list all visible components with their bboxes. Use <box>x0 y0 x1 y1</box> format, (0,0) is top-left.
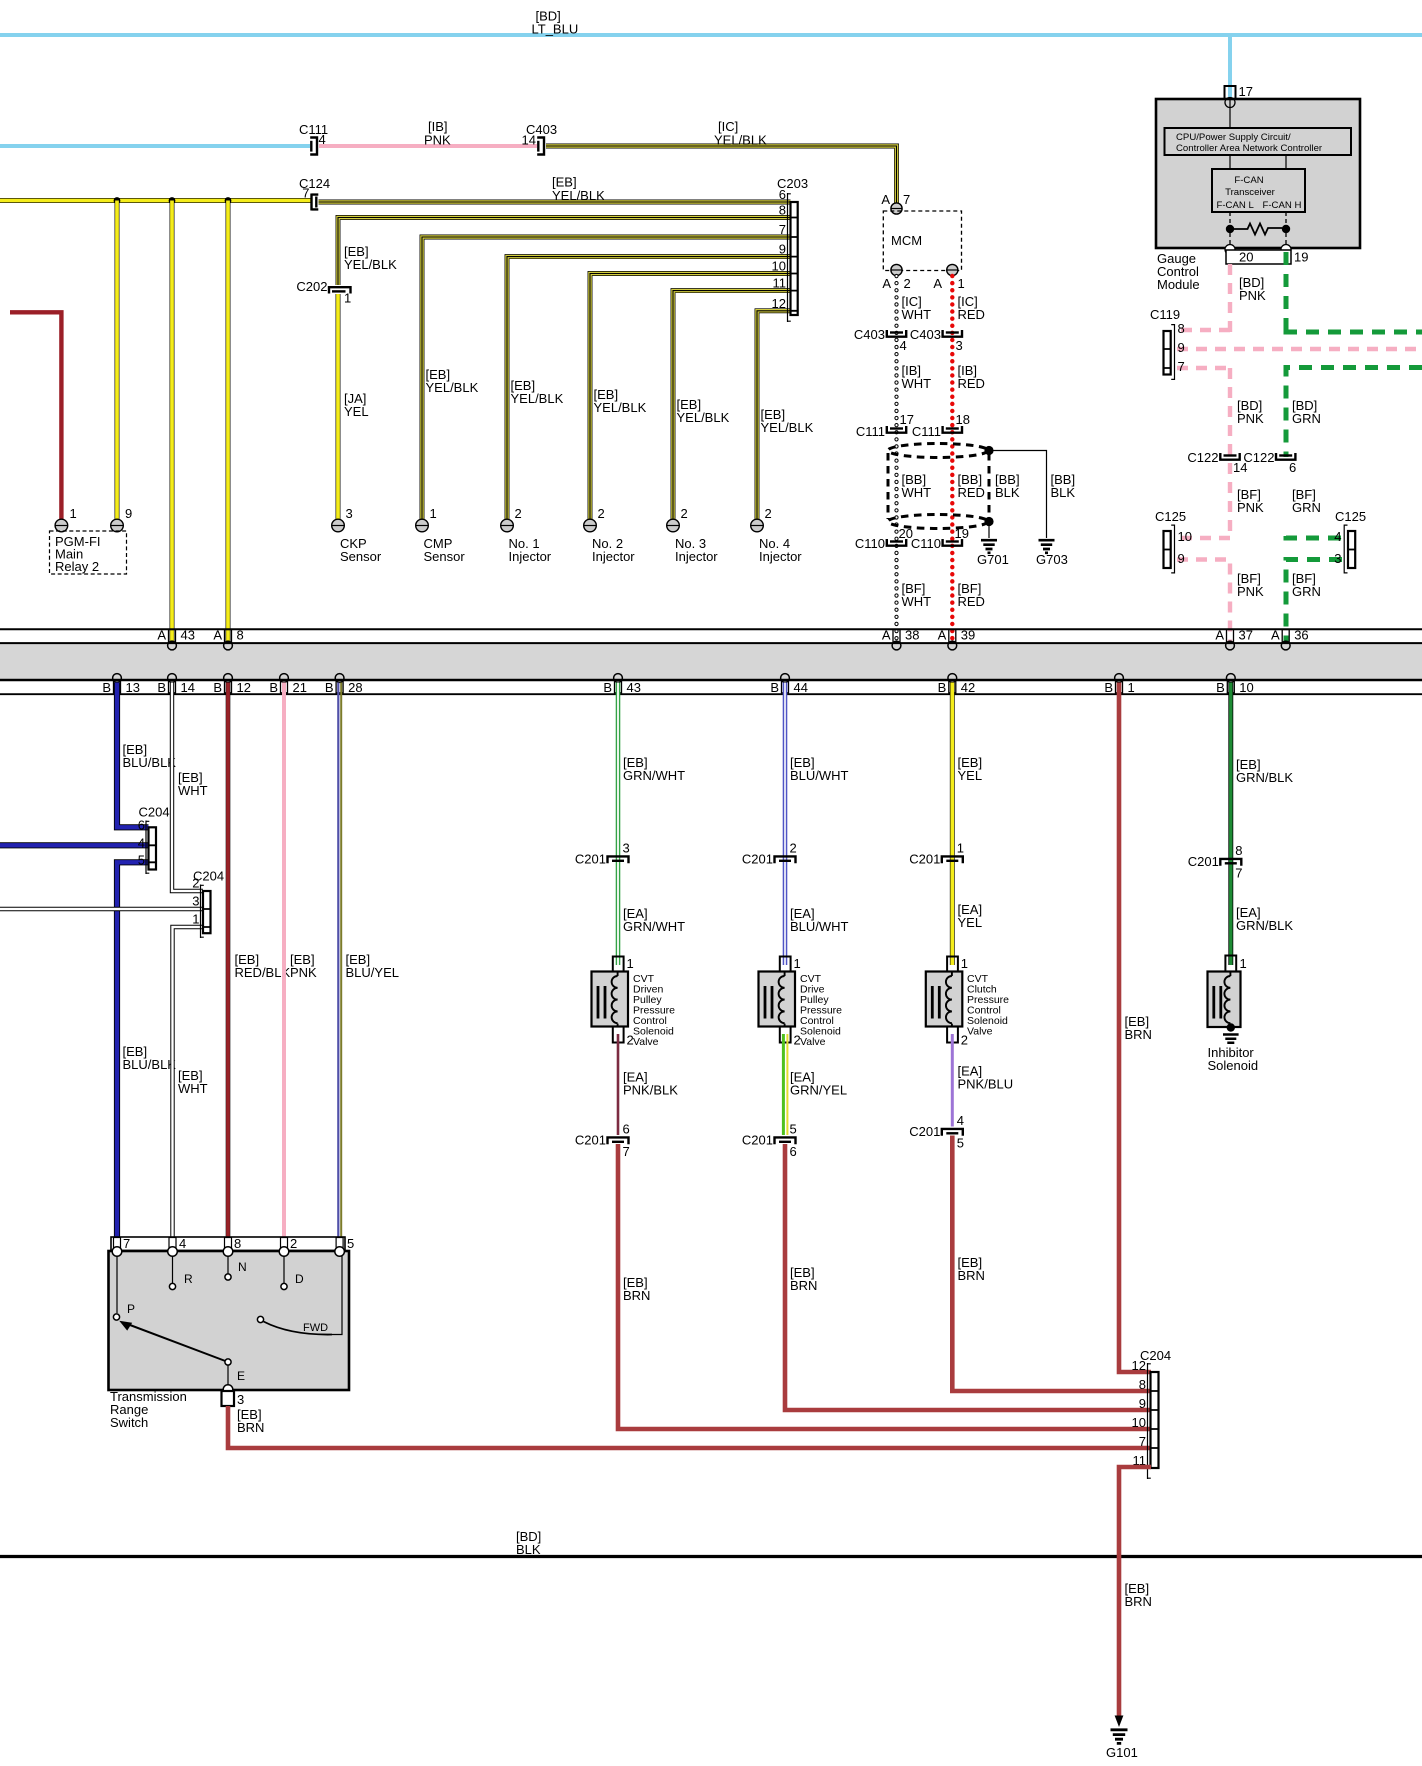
label [EB] BRN at switch pin 3 <box>237 1407 264 1435</box>
svg-text:BLK: BLK <box>995 485 1020 500</box>
wire [BF] GRN into C125 pin 4 <box>1286 536 1342 538</box>
svg-text:Valve: Valve <box>800 1036 826 1048</box>
label CVT Drive Pulley Pressure Control Solenoid Valve <box>800 973 842 1048</box>
svg-text:B: B <box>603 680 612 695</box>
wire [EA] PNK/BLU <box>951 1034 954 1127</box>
svg-text:BRN: BRN <box>1125 1027 1152 1042</box>
CVT drive pulley solenoid pin 1 <box>780 956 801 972</box>
connector C201 pins 4 5 <box>909 1113 964 1151</box>
label [BB] RED <box>958 472 985 500</box>
svg-text:44: 44 <box>794 680 808 695</box>
pin B 28 <box>325 674 363 695</box>
svg-text:FWD: FWD <box>303 1322 328 1334</box>
svg-text:BRN: BRN <box>623 1288 650 1303</box>
switch pin 3 rect <box>222 1391 245 1407</box>
wire [BD] BLK ground bus <box>0 1555 1422 1558</box>
node circle at pin 17 <box>1225 98 1235 108</box>
label [BF] PNK mid <box>1237 487 1264 515</box>
svg-text:3: 3 <box>956 338 963 353</box>
connector C204 pins 6 4 5 <box>138 805 170 875</box>
wire [EB] YEL/BLK C203 pin 7 to CMP sensor <box>422 237 791 519</box>
svg-text:Injector: Injector <box>759 549 802 564</box>
connector C124 pin 7 <box>299 176 330 211</box>
pin B 14 <box>157 674 195 695</box>
dashed wire F-CAN L to terminator <box>1229 212 1231 225</box>
component No. 3 Injector <box>675 536 718 564</box>
svg-text:BLK: BLK <box>516 1542 541 1557</box>
switch arm E to P with arrowhead <box>119 1321 231 1365</box>
svg-text:LT_BLU: LT_BLU <box>532 22 579 37</box>
wire pin17 to CPU box <box>1229 100 1231 128</box>
svg-text:2: 2 <box>904 276 911 291</box>
svg-text:3: 3 <box>192 894 199 909</box>
label Transmission Range Switch <box>110 1389 187 1430</box>
svg-text:7: 7 <box>1178 359 1185 374</box>
svg-text:PNK/BLK: PNK/BLK <box>623 1083 678 1098</box>
svg-text:GRN/WHT: GRN/WHT <box>623 768 685 783</box>
node circle switch pin 4 <box>168 1247 178 1257</box>
label [IC] WHT <box>902 294 932 322</box>
wire [BB] BLK dashed drain <box>988 453 991 518</box>
svg-text:GRN/WHT: GRN/WHT <box>623 919 685 934</box>
wire [BF] PNK C125 pin 9 to band A37 <box>1177 560 1230 645</box>
svg-text:BLU/WHT: BLU/WHT <box>790 768 849 783</box>
svg-text:N: N <box>238 1260 247 1274</box>
label [EB] BRN B1 <box>1125 1014 1152 1042</box>
strip pin rect 4 <box>169 1238 176 1251</box>
svg-text:1: 1 <box>627 956 634 971</box>
wire [EB] BRN C204 pin 11 to G101 <box>1119 1467 1151 1717</box>
svg-text:RED: RED <box>958 594 985 609</box>
node circle switch pin 7 <box>112 1247 122 1257</box>
svg-text:B: B <box>157 680 166 695</box>
label [EB] YEL/BLK inj2 <box>594 387 647 415</box>
junction on yellow bus x228 <box>225 197 232 204</box>
node circle switch pin E <box>223 1385 233 1395</box>
svg-text:R: R <box>184 1272 193 1286</box>
component Gauge Control Module box <box>1156 99 1360 248</box>
svg-text:20: 20 <box>1239 250 1253 265</box>
svg-text:7: 7 <box>623 1144 630 1159</box>
svg-text:19: 19 <box>1294 250 1308 265</box>
wire [IC] YEL/BLK C403 to MCM pin A7 <box>546 146 897 203</box>
pin A 43 <box>157 628 195 650</box>
pin A 39 <box>938 628 976 650</box>
svg-text:C201: C201 <box>1188 854 1219 869</box>
svg-text:A: A <box>1215 628 1224 643</box>
svg-text:BLU/YEL: BLU/YEL <box>346 965 399 980</box>
svg-text:F-CAN H: F-CAN H <box>1263 200 1302 211</box>
terminal injector 4 pin 2 <box>751 506 772 532</box>
svg-text:1: 1 <box>1128 680 1135 695</box>
svg-text:14: 14 <box>181 680 195 695</box>
svg-text:P: P <box>127 1302 135 1316</box>
svg-text:Switch: Switch <box>110 1415 148 1430</box>
node circle switch pin 5 <box>335 1247 345 1257</box>
svg-text:2: 2 <box>192 876 199 891</box>
gauge control module pin 17 rect <box>1225 84 1253 100</box>
connector C122 pin 6 (GRN) <box>1243 450 1296 475</box>
svg-text:Module: Module <box>1157 277 1200 292</box>
svg-text:Sensor: Sensor <box>340 549 382 564</box>
svg-text:WHT: WHT <box>902 376 932 391</box>
label [EB] BLU/YEL <box>346 952 399 980</box>
component PGM-FI Main Relay 2 <box>50 531 127 574</box>
connector C201 pins 5 6 <box>742 1122 797 1160</box>
connector C204 pins 2 3 1 <box>192 869 224 939</box>
connector C110 pin 20 (WHT) <box>855 526 913 551</box>
svg-text:Controller Area Network Contro: Controller Area Network Controller <box>1176 143 1323 154</box>
component Inhibitor Solenoid <box>1208 972 1241 1028</box>
pin B 44 <box>770 674 808 695</box>
svg-text:5: 5 <box>347 1236 354 1251</box>
label [EB] YEL/BLK inj1 <box>511 378 564 406</box>
label Gauge Control Module <box>1157 251 1200 292</box>
label [EB] YEL/BLK inj4 <box>761 407 814 435</box>
label [EA] YEL <box>958 902 983 930</box>
wire [BD] GRN second from right edge down <box>1286 368 1422 458</box>
pin B 10 <box>1216 674 1254 695</box>
wire [IB] PNK C111 to C403 <box>319 144 537 148</box>
wire [EB] BRN B1 to C204 pin 12 <box>1119 683 1151 1373</box>
wire [IC]/[IB]/[BF] WHT MCM A2 to band A38 <box>894 276 898 644</box>
svg-text:WHT: WHT <box>178 783 208 798</box>
svg-text:8: 8 <box>237 628 244 643</box>
label [BB] WHT <box>902 472 932 500</box>
wire [EB] YEL/BLK C203 pin 10 to injector 2 <box>590 274 791 520</box>
dashed wire terminator left down <box>1229 233 1231 248</box>
svg-text:B: B <box>1104 680 1113 695</box>
svg-text:1: 1 <box>344 291 351 306</box>
svg-text:C119: C119 <box>1150 307 1180 322</box>
svg-text:C201: C201 <box>909 1124 940 1139</box>
svg-text:B: B <box>102 680 111 695</box>
pin A 37 <box>1215 628 1253 650</box>
svg-text:10: 10 <box>1178 529 1192 544</box>
strip pin rect 2 <box>281 1238 288 1251</box>
svg-text:1: 1 <box>794 956 801 971</box>
label [EA] BLU/WHT <box>790 906 849 934</box>
svg-text:12: 12 <box>1132 1358 1146 1373</box>
svg-text:GRN/BLK: GRN/BLK <box>1236 770 1293 785</box>
svg-text:A: A <box>882 276 891 291</box>
terminal MCM pin A1 <box>947 264 958 275</box>
connector C111 pin 18 (RED) <box>912 412 970 439</box>
wire [EB] YEL B42 down <box>950 683 955 966</box>
wire [IC]/[IB]/[BF] RED MCM A1 to band A39 <box>950 276 954 644</box>
svg-text:5: 5 <box>790 1122 797 1137</box>
pin B 13 <box>102 674 140 695</box>
connector C122 pin 14 (PNK) <box>1187 450 1247 475</box>
svg-text:PNK: PNK <box>1237 500 1264 515</box>
svg-text:9: 9 <box>125 506 132 521</box>
svg-text:1: 1 <box>1240 956 1247 971</box>
wire CPU to F-CAN left <box>1229 155 1231 169</box>
strip pin rect 7 <box>114 1238 121 1251</box>
connector C119 pins 8 9 7 <box>1150 307 1185 380</box>
wire [EB] BLU/WHT B44 down <box>783 683 788 966</box>
wire [EA] PNK/BLK <box>617 1034 620 1135</box>
svg-text:7: 7 <box>903 192 910 207</box>
svg-text:8: 8 <box>1139 1377 1146 1392</box>
label [BD] GRN mid <box>1292 398 1321 426</box>
junction BB BLK top <box>984 446 993 455</box>
svg-text:43: 43 <box>181 628 195 643</box>
resistor CAN terminator <box>1234 224 1282 235</box>
wire [EB] BLU/BLK B13 to C204 pin 6 <box>117 683 149 828</box>
contact FWD <box>257 1316 328 1334</box>
label [EA] PNK/BLK <box>623 1070 678 1098</box>
svg-text:42: 42 <box>961 680 975 695</box>
label [EB] WHT upper <box>178 770 208 798</box>
label [EB] YEL/BLK at C202 <box>344 244 397 272</box>
svg-text:A: A <box>882 628 891 643</box>
svg-text:17: 17 <box>1239 84 1253 99</box>
ground G701 <box>977 540 1009 567</box>
svg-text:8: 8 <box>1235 843 1242 858</box>
connector C111 pin 4 <box>299 122 328 155</box>
harness band bottom line <box>0 693 1422 695</box>
twisted pair shield left side <box>887 453 890 519</box>
svg-text:5: 5 <box>957 1136 964 1151</box>
label [EB] WHT lower <box>178 1068 208 1096</box>
label [BD] PNK mid <box>1237 398 1264 426</box>
svg-text:4: 4 <box>179 1236 186 1251</box>
svg-text:28: 28 <box>348 680 362 695</box>
svg-text:A: A <box>938 628 947 643</box>
dashed wire terminator right down <box>1285 233 1287 248</box>
svg-text:12: 12 <box>772 296 786 311</box>
wire [EB] PNK B21 to range switch pin 2 <box>282 683 286 1251</box>
ground G101 <box>1106 1730 1138 1760</box>
svg-text:2: 2 <box>515 506 522 521</box>
svg-text:2: 2 <box>681 506 688 521</box>
wire [BD] GRN pin 19 down <box>1284 252 1289 332</box>
harness band lower line <box>0 679 1422 682</box>
CVT driven pulley solenoid pin 1 <box>613 956 634 972</box>
wire [EB] YEL/BLK C203 pin 11 to injector 3 <box>673 291 791 519</box>
pin B 43 <box>603 674 641 695</box>
svg-text:Transceiver: Transceiver <box>1225 187 1276 198</box>
connector C201 pin 3 <box>575 841 630 867</box>
label [EB] BRN left <box>623 1275 650 1303</box>
terminal injector 1 pin 2 <box>501 506 522 532</box>
terminal injector 2 pin 2 <box>584 506 605 532</box>
contact P with stub <box>113 1256 135 1320</box>
svg-text:Valve: Valve <box>967 1026 993 1038</box>
twisted pair shield top ellipse <box>888 444 988 458</box>
svg-text:21: 21 <box>293 680 307 695</box>
node circle switch pin 8 <box>223 1247 233 1257</box>
svg-text:1: 1 <box>957 841 964 856</box>
wire [EB] YEL/BLK C124 to C203 pin 6 <box>319 200 791 205</box>
svg-text:G701: G701 <box>977 552 1009 567</box>
wire to G701 <box>988 525 990 538</box>
svg-text:PNK: PNK <box>290 965 317 980</box>
wire [EB] YEL/BLK C203 pin 12 to injector 4 <box>757 311 791 519</box>
svg-text:5: 5 <box>138 853 145 868</box>
svg-text:36: 36 <box>1294 628 1308 643</box>
label [IB] RED <box>958 363 985 391</box>
label [EB] BLU/BLK upper <box>123 742 177 770</box>
svg-text:Injector: Injector <box>509 549 552 564</box>
wire [BD] PNK to C119 pin 8 <box>1177 328 1230 332</box>
svg-text:PNK/BLU: PNK/BLU <box>958 1077 1014 1092</box>
wire YEL drop to band pin A8 <box>226 201 231 645</box>
svg-text:C201: C201 <box>575 1133 606 1148</box>
label [JA] YEL <box>344 391 369 419</box>
svg-text:C111: C111 <box>912 424 941 439</box>
block CPU/Power Supply Circuit <box>1165 128 1352 155</box>
svg-text:A: A <box>157 628 166 643</box>
label [BD] BLK <box>516 1529 541 1557</box>
svg-text:RED: RED <box>958 376 985 391</box>
wire YEL drop to PGM-FI pin 9 <box>115 201 120 520</box>
wire [EB] BRN driven solenoid to C204 pin 10 <box>618 1144 1151 1429</box>
svg-text:WHT: WHT <box>902 307 932 322</box>
svg-text:Solenoid: Solenoid <box>1208 1058 1259 1073</box>
svg-text:WHT: WHT <box>178 1081 208 1096</box>
junction terminator left <box>1226 225 1234 233</box>
twisted pair shield bottom ellipse <box>888 515 988 529</box>
label [EB] BRN right <box>958 1255 985 1283</box>
pin B 12 <box>213 674 251 695</box>
connector C110 pin 19 (RED) <box>911 526 969 551</box>
svg-text:C403: C403 <box>854 327 885 342</box>
label [BF] WHT <box>902 581 932 609</box>
label [EB] YEL <box>958 755 983 783</box>
label [BF] GRN mid <box>1292 487 1321 515</box>
wire [EB] BLU/BLK C204 pin 5 to range switch <box>117 862 149 1250</box>
svg-text:Injector: Injector <box>592 549 635 564</box>
svg-text:7: 7 <box>123 1236 130 1251</box>
svg-text:F-CAN L: F-CAN L <box>1217 200 1255 211</box>
component CVT Drive Pulley Pressure Control Solenoid Valve <box>759 972 796 1028</box>
svg-text:B: B <box>325 680 334 695</box>
component CMP Sensor <box>424 536 466 564</box>
svg-text:7: 7 <box>302 186 309 201</box>
junction on yellow bus x117 <box>114 197 121 204</box>
component CVT Clutch Pressure Control Solenoid Valve <box>926 972 963 1028</box>
inhibitor solenoid internal ground <box>1223 1035 1239 1043</box>
svg-text:10: 10 <box>1239 680 1253 695</box>
svg-text:A: A <box>933 276 942 291</box>
svg-text:C201: C201 <box>742 1133 773 1148</box>
inhibitor solenoid pin 1 <box>1225 956 1246 972</box>
svg-text:6: 6 <box>790 1144 797 1159</box>
svg-text:F-CAN: F-CAN <box>1234 175 1263 186</box>
svg-text:2: 2 <box>765 506 772 521</box>
strip pin rect 8 <box>225 1238 232 1251</box>
svg-text:38: 38 <box>905 628 919 643</box>
svg-text:1: 1 <box>961 956 968 971</box>
svg-text:C403: C403 <box>910 327 941 342</box>
label [BF] PNK lower <box>1237 571 1264 599</box>
svg-text:8: 8 <box>779 203 786 218</box>
terminal MCM pin A2 <box>891 264 902 275</box>
wire [EB] BRN clutch solenoid to C204 pin 8 <box>952 1136 1151 1392</box>
contact D with stub <box>281 1256 304 1290</box>
connector C201 pin 2 <box>742 841 797 867</box>
svg-text:6: 6 <box>138 818 145 833</box>
label [EB] BLU/BLK lower <box>123 1044 177 1072</box>
svg-text:3: 3 <box>623 841 630 856</box>
svg-text:YEL/BLK: YEL/BLK <box>761 420 814 435</box>
label [EB] PNK <box>290 952 317 980</box>
svg-text:GRN: GRN <box>1292 500 1321 515</box>
svg-text:PNK: PNK <box>424 133 451 148</box>
connector C201 pins 6 7 <box>575 1122 630 1160</box>
wire WHT from left edge to C204 pin 3 <box>0 907 203 911</box>
svg-text:Valve: Valve <box>633 1036 659 1048</box>
svg-text:43: 43 <box>627 680 641 695</box>
svg-text:PNK: PNK <box>1237 411 1264 426</box>
svg-text:9: 9 <box>1178 551 1185 566</box>
label A 7 MCM top pin <box>881 192 910 207</box>
wire [EB] YEL/BLK C203 pin 9 to injector 1 <box>507 257 791 519</box>
svg-text:B: B <box>938 680 947 695</box>
wire [BD] LT_BLU top bus <box>0 33 1422 37</box>
svg-text:8: 8 <box>234 1236 241 1251</box>
terminal MCM pin A7 <box>891 203 902 214</box>
svg-text:A: A <box>881 192 890 207</box>
wire [BD] GRN elbow to right edge <box>1286 330 1422 332</box>
connector C111 pin 17 (WHT) <box>856 412 914 439</box>
wire arm pivot to E terminal <box>228 1365 245 1385</box>
svg-text:YEL/BLK: YEL/BLK <box>344 257 397 272</box>
svg-text:10: 10 <box>1132 1415 1146 1430</box>
node circle pin 20 <box>1225 245 1235 255</box>
svg-text:B: B <box>770 680 779 695</box>
svg-text:39: 39 <box>961 628 975 643</box>
CVT driven pulley solenoid pin 2 <box>613 1027 634 1048</box>
svg-text:A: A <box>1271 628 1280 643</box>
svg-text:Injector: Injector <box>675 549 718 564</box>
svg-text:2: 2 <box>790 841 797 856</box>
label [BB] BLK drain <box>995 472 1020 500</box>
component MCM dashed box <box>883 211 961 271</box>
label [EB] YEL/BLK top <box>552 175 605 204</box>
svg-text:YEL/BLK: YEL/BLK <box>511 391 564 406</box>
wire [BD] PNK C119 pin 9 to right edge <box>1177 347 1422 351</box>
svg-text:C201: C201 <box>575 852 606 867</box>
svg-text:C202: C202 <box>296 279 327 294</box>
wire CPU to F-CAN right <box>1285 155 1287 169</box>
svg-text:B: B <box>1216 680 1225 695</box>
label [EA] PNK/BLU <box>958 1064 1014 1092</box>
svg-text:PNK: PNK <box>1237 584 1264 599</box>
svg-text:11: 11 <box>773 276 787 291</box>
svg-text:D: D <box>295 1272 304 1286</box>
svg-text:YEL: YEL <box>344 404 369 419</box>
wire [EB] YEL/BLK C203 pin 8 to C202 <box>338 218 791 286</box>
label [EB] YEL/BLK CMP <box>426 367 479 395</box>
terminal PGM-FI pin 9 <box>111 506 133 532</box>
terminal CKP sensor pin 3 <box>332 506 353 532</box>
junction terminator right <box>1282 225 1290 233</box>
svg-text:WHT: WHT <box>902 485 932 500</box>
svg-text:4: 4 <box>138 836 145 851</box>
pin B 1 <box>1104 674 1134 695</box>
connector C203 body <box>777 176 808 322</box>
svg-text:1: 1 <box>192 912 199 927</box>
label [BD] PNK upper <box>1239 275 1266 303</box>
CVT clutch solenoid pin 2 <box>947 1027 968 1048</box>
svg-text:A: A <box>213 628 222 643</box>
label [EB] BRN mid <box>790 1265 817 1293</box>
C203 pin numbers <box>772 187 786 311</box>
harness band second line <box>0 642 1422 644</box>
